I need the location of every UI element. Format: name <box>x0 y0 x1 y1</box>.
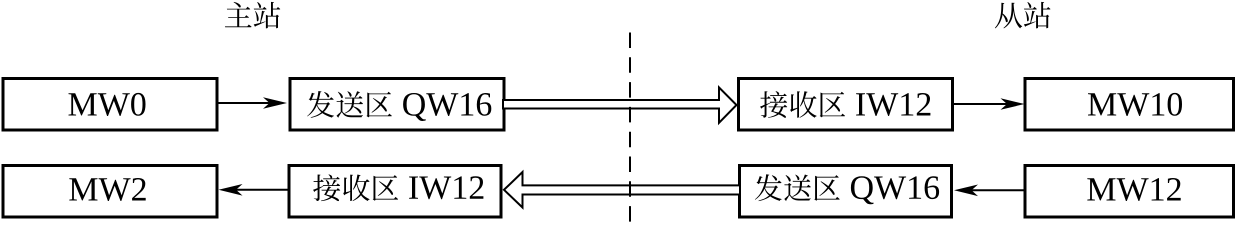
block arrow master send to slave receive (rightward hollow) <box>503 87 737 122</box>
box 接收区 IW12 (slave receive area) <box>739 79 953 131</box>
text MW12 <box>1087 178 1180 201</box>
text 发送区 QW16 (row 2) <box>755 174 939 204</box>
text MW10 <box>1088 93 1182 116</box>
arrow MW12 to send area <box>954 185 1025 197</box>
box 发送区 QW16 (master send area) <box>290 79 504 131</box>
label 从站 (slave station) <box>995 2 1051 29</box>
text 接收区 IW12 (row 1) <box>760 91 930 118</box>
arrow MW0 to send area <box>219 97 288 109</box>
text MW2 <box>69 178 145 201</box>
text 发送区 QW16 (row 1) <box>307 91 491 121</box>
box MW0 (master) <box>3 79 217 131</box>
text 接收区 IW12 (row 2) <box>313 174 483 201</box>
box 发送区 QW16 (slave send area) <box>740 166 952 218</box>
arrow receive area to MW10 <box>953 98 1025 110</box>
block arrow slave send to master receive (leftward hollow) <box>504 172 740 208</box>
box MW2 (master) <box>3 166 217 218</box>
box MW12 (slave) <box>1025 166 1234 218</box>
arrow receive area to MW2 <box>219 184 289 196</box>
label 主站 (master station) <box>225 2 280 29</box>
dashed station boundary line <box>629 33 631 223</box>
box 接收区 IW12 (master receive area) <box>289 166 501 218</box>
box MW10 (slave) <box>1025 79 1234 131</box>
text MW0 <box>69 93 146 116</box>
